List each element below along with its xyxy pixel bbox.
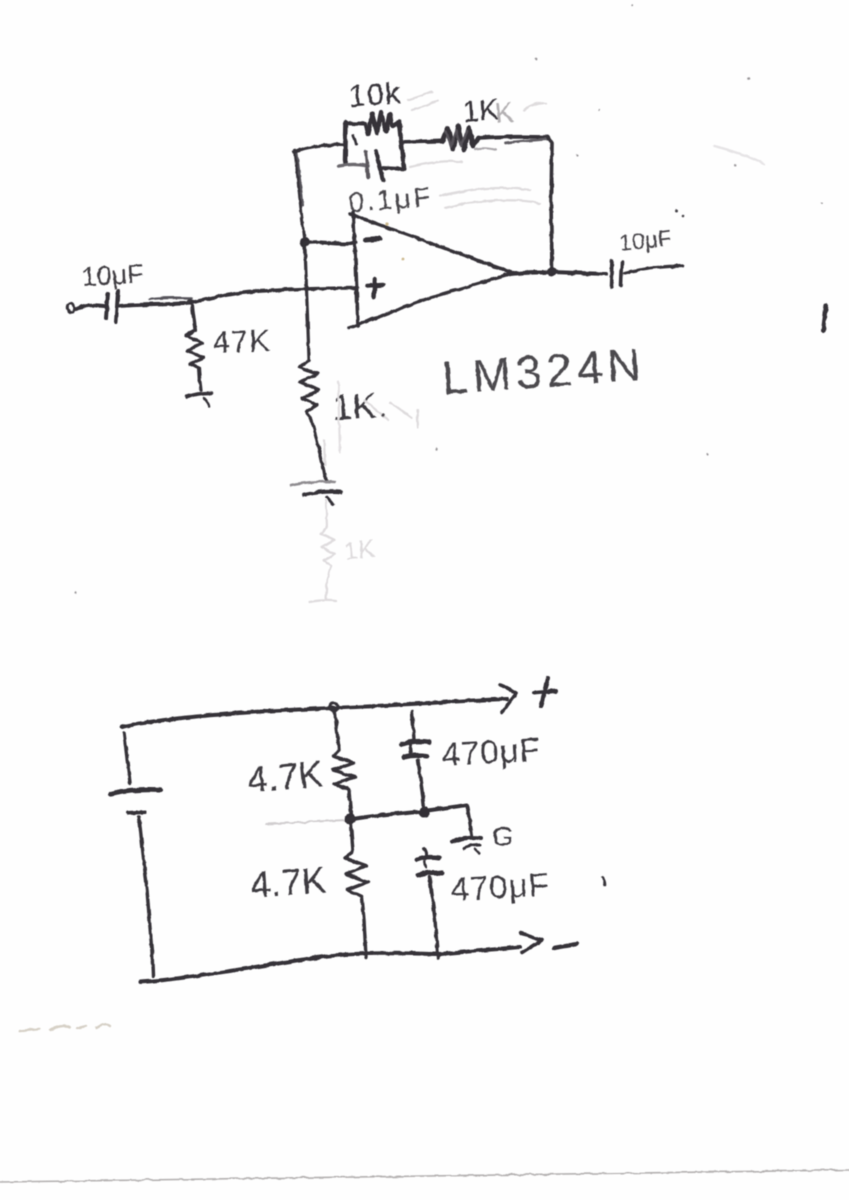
wire feedback right rail xyxy=(548,137,552,268)
node input junction xyxy=(187,299,193,305)
input terminal xyxy=(66,302,75,313)
wire box to R4 xyxy=(405,141,443,142)
svg-text:10μF: 10μF xyxy=(81,259,145,292)
svg-text:4.7K: 4.7K xyxy=(249,860,328,906)
svg-text:G: G xyxy=(492,821,514,852)
wire midpoint rail xyxy=(266,805,467,824)
svg-text:10k: 10k xyxy=(347,75,402,114)
node output junction xyxy=(547,267,557,277)
node midpoint xyxy=(345,814,356,825)
ground G xyxy=(452,838,481,853)
node inverting input xyxy=(300,237,310,247)
capacitor C1 10uF xyxy=(106,291,118,322)
wire C1 to node xyxy=(120,298,192,306)
resistor R6 4.7K xyxy=(345,824,368,957)
resistor R4 1K feedback xyxy=(443,126,478,150)
smudges top xyxy=(338,92,546,452)
svg-text:4.7K: 4.7K xyxy=(245,753,325,801)
svg-text:K: K xyxy=(493,96,515,129)
apostrophe mark right of C5 label xyxy=(602,877,605,885)
wire node to op-amp - input xyxy=(305,242,356,244)
svg-text:47K: 47K xyxy=(212,323,271,360)
wire mid to ground G xyxy=(467,805,472,836)
node positive rail xyxy=(330,703,338,711)
tan specks xyxy=(385,222,404,260)
arrow negative rail xyxy=(521,933,542,953)
wire negative rail xyxy=(140,947,520,982)
resistor R3 10k and box xyxy=(345,112,404,169)
wire inverting node down to R2 xyxy=(305,247,309,360)
capacitor C2 0.1uF xyxy=(339,135,383,180)
faint marks bottom left xyxy=(20,1025,110,1031)
op-amp U1 xyxy=(349,212,513,328)
arrow positive rail xyxy=(500,685,516,712)
svg-text:470μF: 470μF xyxy=(441,731,542,773)
node capacitor branch mid xyxy=(419,807,430,818)
label plus xyxy=(534,678,556,706)
label C3 10uF xyxy=(618,209,684,256)
speckles xyxy=(75,4,823,593)
svg-text:LM324N: LM324N xyxy=(440,338,647,404)
capacitor C5 470uF xyxy=(417,848,442,958)
faint smudge top right xyxy=(714,146,764,164)
wire node to op-amp + input xyxy=(190,288,357,303)
op-amp non-inverting sign xyxy=(367,279,383,297)
op-amp inverting sign xyxy=(365,239,380,240)
ground below R1 xyxy=(187,393,211,406)
wire positive rail xyxy=(122,699,507,727)
capacitor C4 470uF xyxy=(402,712,429,808)
capacitor C3 10uF output xyxy=(611,260,622,287)
wire op-amp output xyxy=(505,272,606,275)
svg-text:10μF: 10μF xyxy=(618,225,673,256)
wire rail top to box xyxy=(294,145,344,152)
wire after C3 xyxy=(625,266,683,273)
ground below R2 xyxy=(291,482,341,504)
resistor R2 1K xyxy=(299,360,326,481)
battery BT1 xyxy=(111,733,161,976)
label minus xyxy=(554,944,577,948)
svg-text:470μF: 470μF xyxy=(450,866,551,908)
resistor R1 47K xyxy=(186,306,204,390)
wire R4 to corner xyxy=(475,137,549,150)
label R4 1K xyxy=(461,94,515,129)
svg-text:0.1μF: 0.1μF xyxy=(347,181,434,218)
wire feedback left rail xyxy=(295,150,304,238)
ghost erased resistor xyxy=(310,440,376,602)
paper bottom edge xyxy=(0,1170,849,1182)
wire input to C1 xyxy=(76,305,104,309)
dot after 1K label xyxy=(381,413,385,417)
svg-text:1K: 1K xyxy=(343,535,377,566)
page mark 1 xyxy=(823,305,826,331)
resistor R5 4.7K xyxy=(333,713,355,814)
